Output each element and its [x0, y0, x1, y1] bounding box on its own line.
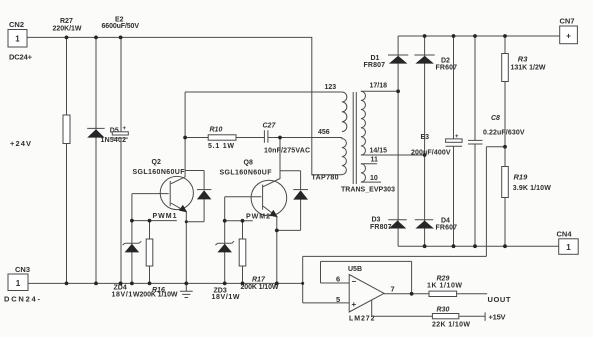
svg-text:CN3: CN3 — [15, 265, 30, 274]
svg-text:C27: C27 — [263, 123, 277, 130]
svg-text:D2: D2 — [441, 58, 450, 65]
svg-text:D1: D1 — [371, 55, 380, 62]
svg-text:R19: R19 — [514, 173, 529, 182]
svg-text:200K 1/10W: 200K 1/10W — [140, 292, 178, 299]
svg-text:CN2: CN2 — [9, 20, 24, 29]
svg-text:R10: R10 — [210, 127, 223, 134]
svg-text:1: 1 — [15, 35, 20, 44]
svg-text:18V/1W: 18V/1W — [112, 292, 140, 299]
svg-text:6600uF/50V: 6600uF/50V — [102, 23, 140, 30]
svg-text:TRANS_EVP303: TRANS_EVP303 — [341, 187, 395, 194]
svg-text:17/18: 17/18 — [370, 83, 388, 90]
svg-text:R17: R17 — [252, 277, 266, 284]
svg-text:18V/1W: 18V/1W — [212, 294, 240, 301]
svg-text:5: 5 — [336, 295, 340, 304]
svg-text:R3: R3 — [518, 54, 528, 63]
svg-text:R27: R27 — [60, 18, 73, 25]
svg-text:220K/1W: 220K/1W — [53, 26, 82, 33]
svg-text:10nF/275VAC: 10nF/275VAC — [264, 148, 310, 155]
svg-text:+24V: +24V — [10, 139, 31, 148]
svg-text:+: + — [455, 134, 459, 140]
svg-text:123: 123 — [325, 84, 337, 91]
svg-text:UOUT: UOUT — [488, 295, 511, 304]
svg-text:−: − — [352, 277, 357, 286]
svg-text:456: 456 — [318, 129, 330, 136]
svg-text:SGL160N60UF: SGL160N60UF — [220, 170, 273, 177]
svg-text:CN7: CN7 — [560, 17, 575, 26]
svg-text:U5B: U5B — [348, 266, 362, 273]
svg-text:TAP780: TAP780 — [312, 175, 339, 182]
svg-text:PWM1: PWM1 — [153, 213, 177, 220]
svg-text:FR807: FR807 — [364, 62, 386, 69]
svg-text:5.1 1W: 5.1 1W — [208, 143, 234, 150]
svg-text:200uF/400V: 200uF/400V — [411, 150, 451, 157]
svg-text:C8: C8 — [491, 115, 500, 122]
svg-text:7: 7 — [391, 285, 395, 294]
svg-text:D4: D4 — [441, 218, 450, 225]
svg-text:FR807: FR807 — [370, 224, 392, 231]
svg-text:131K 1/2W: 131K 1/2W — [511, 64, 546, 71]
svg-text:3.9K 1/10W: 3.9K 1/10W — [513, 185, 551, 192]
svg-text:E3: E3 — [421, 134, 430, 141]
svg-text:1: 1 — [566, 243, 571, 252]
svg-text:PWM2: PWM2 — [246, 214, 270, 221]
svg-text:22K 1/10W: 22K 1/10W — [432, 322, 470, 329]
svg-text:DC24+: DC24+ — [9, 53, 33, 62]
svg-text:Q8: Q8 — [244, 160, 253, 167]
svg-text:+: + — [352, 300, 357, 309]
svg-text:R29: R29 — [437, 276, 450, 283]
svg-text:D3: D3 — [372, 217, 381, 224]
svg-text:1K 1/10W: 1K 1/10W — [427, 283, 462, 290]
svg-text:CN4: CN4 — [557, 230, 573, 239]
svg-text:LM272: LM272 — [349, 315, 375, 322]
svg-text:+: + — [123, 126, 127, 132]
svg-text:14/15: 14/15 — [370, 148, 388, 155]
svg-text:0.22uF/630V: 0.22uF/630V — [483, 130, 525, 137]
svg-text:+15V: +15V — [489, 313, 506, 322]
svg-text:+: + — [566, 32, 571, 41]
svg-text:R30: R30 — [437, 307, 450, 314]
svg-text:6: 6 — [336, 275, 340, 284]
svg-text:ZD4: ZD4 — [114, 285, 127, 292]
svg-text:1: 1 — [16, 279, 21, 288]
svg-text:SGL160N60UF: SGL160N60UF — [133, 169, 186, 176]
svg-text:Q2: Q2 — [152, 159, 161, 166]
svg-text:200K 1/10W: 200K 1/10W — [241, 284, 279, 291]
svg-text:11: 11 — [371, 156, 379, 163]
svg-text:10: 10 — [370, 175, 378, 182]
